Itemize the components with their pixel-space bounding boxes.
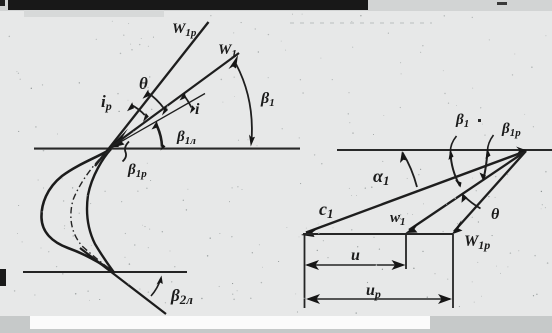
beta-1l angle arc (156, 124, 162, 147)
arrowhead w1 (406, 222, 421, 234)
beta-1 big arc (236, 64, 252, 141)
blade inner curve (87, 149, 114, 273)
arrowhead w1p (452, 220, 463, 235)
top-left corner mark (0, 0, 5, 6)
upper horizontal line (left fig) (34, 148, 300, 150)
beta-1p s-mark (123, 142, 130, 162)
theta arc (right) (464, 196, 481, 209)
left edge black nub (0, 269, 6, 286)
svg-text:θ: θ (491, 206, 500, 223)
box top line (303, 233, 453, 235)
blade outer curve (41, 149, 114, 273)
u dimension line (307, 264, 403, 266)
arrowhead at leading edge (W1p) (109, 129, 129, 149)
i_p angle arc (131, 105, 145, 115)
tiny dash top right (497, 2, 507, 5)
apex arrowhead on line (516, 147, 527, 154)
lower horizontal line (left fig) (23, 271, 187, 273)
arrowhead c1 (301, 226, 322, 238)
bottom white band (30, 316, 430, 329)
box middle vertical (405, 234, 407, 269)
blade camber dash-dot (71, 150, 112, 271)
trailing edge tangent line (80, 248, 166, 314)
beta-2l angle arc (151, 279, 161, 296)
svg-text:i: i (195, 101, 200, 118)
vector w1p (454, 151, 526, 232)
top gray step band (24, 0, 164, 17)
top gray scanner band (0, 0, 552, 11)
i angle tick (183, 94, 191, 107)
box right vertical (452, 234, 454, 308)
svg-text:θ: θ (139, 74, 148, 93)
faint dotted line (290, 22, 432, 24)
dot after beta1 (478, 119, 481, 122)
arrowhead on W1 (229, 55, 239, 69)
u_p dimension line (308, 298, 450, 300)
node L tangent thin line (109, 94, 205, 149)
theta angle arc (147, 92, 164, 108)
vector w1 (409, 151, 526, 230)
beta1p arc (right) (488, 135, 494, 151)
wire W1p ray (95, 22, 209, 166)
svg-text:u: u (351, 247, 360, 264)
bottom gray band (0, 316, 552, 333)
alpha1 arc (403, 153, 418, 188)
right horizontal line (337, 149, 552, 151)
box left vertical (304, 234, 306, 308)
vector c1 (306, 151, 526, 233)
top black bar (8, 0, 368, 10)
wire W1 ray (109, 53, 239, 149)
beta1 arc (right) (450, 136, 456, 152)
